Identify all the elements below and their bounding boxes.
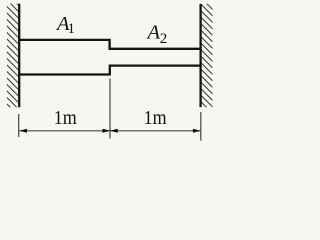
svg-text:1m: 1m [54, 107, 77, 129]
right wall line [199, 4, 201, 107]
svg-text:1m: 1m [144, 107, 167, 129]
arrowhead span2 left [110, 129, 118, 133]
arrowhead span1 right [103, 129, 111, 133]
extension line middle [109, 79, 111, 139]
right wall hatching [201, 0, 212, 126]
extension line left [18, 114, 20, 137]
svg-text:A: A [146, 22, 161, 44]
arrowhead right outward [193, 129, 201, 133]
stepped bar bottom outline [19, 66, 202, 75]
left wall line [18, 4, 20, 107]
left wall hatching [7, 0, 19, 122]
dimension line span 1 [19, 130, 109, 132]
svg-text:2: 2 [160, 31, 168, 47]
stepped bar top outline [19, 40, 202, 49]
extension line right [200, 112, 202, 141]
svg-text:1: 1 [68, 21, 76, 37]
dimension line span 2 [110, 130, 200, 132]
arrowhead left outward [19, 129, 27, 133]
